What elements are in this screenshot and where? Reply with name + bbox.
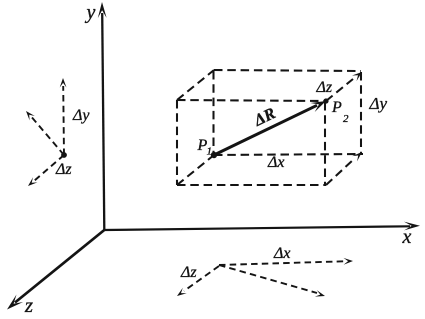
- box back-right vertical edge: [360, 72, 362, 153]
- svg-text:z: z: [24, 293, 33, 317]
- left cluster vertex dot: [61, 152, 67, 158]
- svg-text:Δz: Δz: [316, 79, 333, 96]
- bottom cluster resultant dashed arrow (down-right): [219, 265, 325, 297]
- box bottom-right slant dashed arrow: [326, 152, 362, 185]
- label P2: [331, 99, 349, 125]
- svg-text:Δx: Δx: [273, 245, 291, 262]
- box back-bottom edge: [214, 154, 363, 155]
- box back-top edge: [214, 70, 361, 71]
- box front-right vertical edge: [324, 102, 326, 185]
- svg-text:1: 1: [207, 146, 213, 158]
- svg-text:Δy: Δy: [72, 107, 90, 124]
- box back-left vertical edge: [212, 71, 214, 154]
- box front-left vertical edge: [176, 100, 178, 185]
- svg-text:Δx: Δx: [267, 154, 285, 171]
- point P2: [323, 98, 328, 103]
- left cluster resultant dashed arrow (up-left): [26, 111, 64, 155]
- svg-text:2: 2: [343, 113, 349, 125]
- z-axis: [7, 230, 104, 310]
- left cluster dz dashed arrow (down-left): [28, 155, 64, 186]
- y-axis: [98, 2, 107, 230]
- svg-text:y: y: [85, 2, 96, 24]
- left cluster dy dashed arrow (up): [60, 78, 67, 155]
- box front-top edge: [177, 100, 326, 101]
- point P1: [211, 152, 217, 158]
- svg-text:P: P: [331, 99, 342, 116]
- box top-right slant dashed arrow (depth dz): [326, 72, 362, 101]
- svg-text:Δy: Δy: [369, 94, 388, 113]
- box top-left slant edge: [177, 70, 214, 100]
- box front-bottom edge: [177, 184, 326, 186]
- svg-text:x: x: [402, 226, 412, 248]
- box bottom-left slant edge: [177, 155, 214, 185]
- svg-text:Δz: Δz: [55, 161, 72, 178]
- svg-text:Δz: Δz: [180, 264, 197, 281]
- x-axis: [104, 222, 420, 231]
- bottom cluster dx dashed arrow (right): [219, 258, 353, 265]
- vector dR from P1 to P2: [214, 101, 326, 155]
- bottom cluster dz dashed arrow (down-left): [177, 266, 219, 296]
- label P1: [197, 137, 213, 158]
